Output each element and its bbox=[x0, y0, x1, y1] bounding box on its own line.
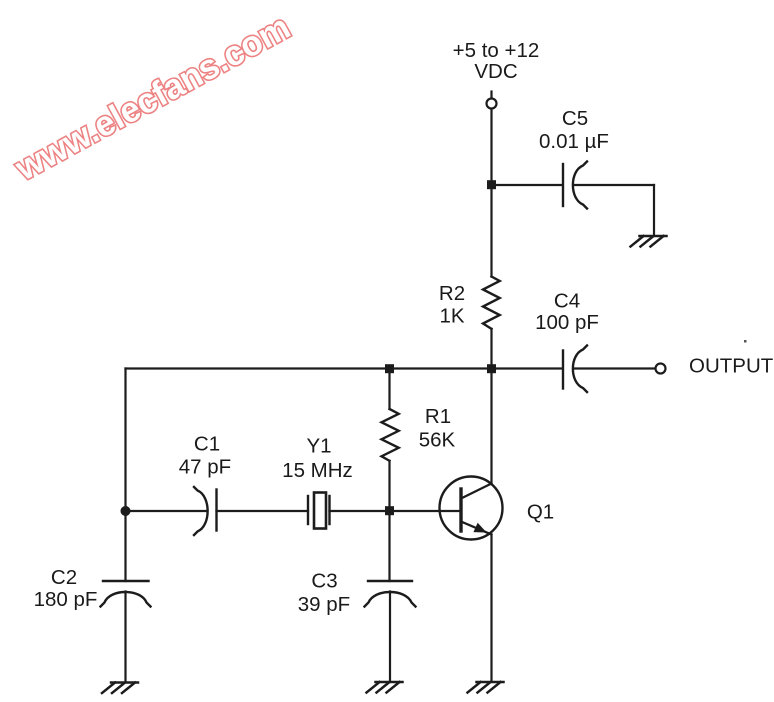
wire feedback left vertical bbox=[124, 369, 126, 512]
capacitor C2 bbox=[101, 581, 151, 607]
svg-text:+5 to +12: +5 to +12 bbox=[453, 39, 540, 62]
ground under C2 bbox=[102, 683, 138, 694]
svg-text:100 pF: 100 pF bbox=[535, 311, 599, 334]
svg-text:R1: R1 bbox=[425, 405, 451, 428]
wire R2 to collector bbox=[490, 329, 492, 484]
wire corner down to ground bbox=[653, 185, 655, 235]
wire C1 to Y1 bbox=[217, 510, 309, 512]
wire node to C2 bbox=[124, 511, 126, 581]
wire emitter to ground bbox=[490, 535, 492, 682]
speck artifact bbox=[744, 340, 747, 343]
svg-text:C3: C3 bbox=[311, 570, 337, 593]
power terminal circle bbox=[487, 99, 497, 109]
capacitor C3 bbox=[365, 581, 416, 607]
svg-text:56K: 56K bbox=[419, 429, 456, 452]
wire R1 to base node bbox=[388, 461, 390, 511]
svg-text:15 MHz: 15 MHz bbox=[282, 459, 353, 482]
svg-text:R2: R2 bbox=[439, 282, 465, 305]
svg-text:180 pF: 180 pF bbox=[34, 588, 98, 611]
svg-text:1K: 1K bbox=[439, 305, 464, 328]
resistor R1 bbox=[382, 409, 399, 461]
wire C3 to ground bbox=[389, 592, 391, 681]
output terminal circle bbox=[656, 364, 666, 374]
capacitor C4 bbox=[563, 346, 587, 393]
wire C4 to output bbox=[574, 367, 655, 369]
junction node feedback/C2 bbox=[121, 506, 131, 516]
svg-text:OUTPUT: OUTPUT bbox=[689, 355, 774, 378]
ground under C5 bbox=[631, 236, 667, 247]
capacitor C1 bbox=[194, 487, 217, 535]
svg-text:C1: C1 bbox=[194, 433, 220, 456]
junction node feedback/R1 bbox=[385, 364, 394, 373]
svg-text:47 pF: 47 pF bbox=[179, 456, 231, 479]
junction node R2/C4 bbox=[487, 364, 496, 373]
wire node to C1 bbox=[126, 510, 207, 512]
wire junction to R1 bbox=[388, 369, 390, 410]
svg-text:C5: C5 bbox=[562, 107, 588, 130]
wire junction to C4 bbox=[492, 367, 563, 369]
wire base node to C3 bbox=[388, 511, 390, 581]
crystal Y1 bbox=[308, 493, 330, 529]
wire Y1 to base bbox=[330, 510, 461, 512]
junction node V+/C5 bbox=[487, 180, 496, 189]
transistor Q1 bbox=[440, 477, 503, 540]
wire junction to C5 bbox=[492, 184, 563, 186]
svg-text:0.01 µF: 0.01 µF bbox=[539, 130, 609, 153]
ground under Q1 emitter bbox=[468, 682, 504, 693]
power terminal stub bbox=[490, 92, 492, 99]
svg-text:VDC: VDC bbox=[474, 60, 517, 83]
svg-text:www.elecfans.com: www.elecfans.com bbox=[8, 7, 296, 188]
resistor R2 bbox=[483, 277, 500, 329]
wire C5 to corner bbox=[574, 184, 654, 186]
wire C2 to ground bbox=[124, 592, 126, 682]
svg-text:39 pF: 39 pF bbox=[298, 593, 350, 616]
svg-text:C2: C2 bbox=[51, 566, 77, 589]
svg-text:Q1: Q1 bbox=[527, 501, 554, 524]
svg-text:C4: C4 bbox=[554, 290, 580, 313]
capacitor C5 bbox=[563, 162, 587, 209]
junction node base/R1/C3 bbox=[385, 506, 394, 515]
svg-text:Y1: Y1 bbox=[306, 435, 331, 458]
wire V+ rail down to R2 bbox=[490, 109, 492, 277]
wire feedback top horizontal bbox=[126, 367, 492, 369]
ground under C3 bbox=[367, 682, 403, 693]
